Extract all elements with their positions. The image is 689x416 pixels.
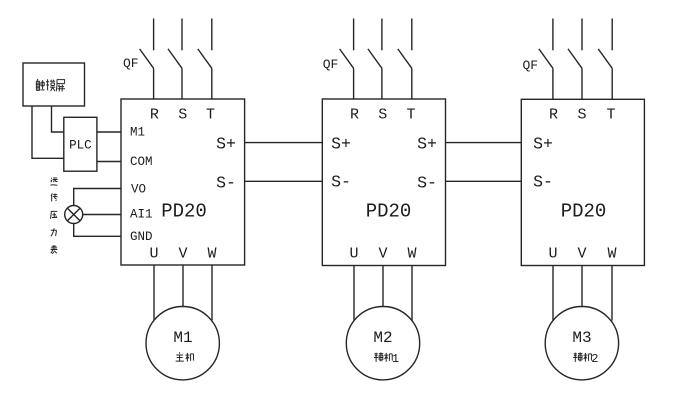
- wire S- link U1 to U2: [245, 180, 323, 182]
- label 远传压力表 (vertical): [51, 178, 58, 254]
- svg-text:M1: M1: [130, 126, 145, 140]
- svg-text:PD20: PD20: [161, 201, 207, 223]
- label 主机: [176, 352, 195, 361]
- svg-text:2: 2: [591, 352, 598, 366]
- motor M2: [346, 307, 419, 380]
- motor M3: [545, 307, 618, 380]
- motor M1: [146, 307, 219, 380]
- svg-text:S-: S-: [417, 174, 437, 193]
- wire U phase U2 to motor M2: [353, 266, 355, 321]
- inverter U1 PD20: [121, 99, 245, 265]
- svg-text:U: U: [149, 246, 158, 263]
- svg-text:T: T: [406, 107, 415, 124]
- svg-text:S-: S-: [533, 173, 553, 192]
- breaker QF2 pole T: [398, 19, 412, 100]
- wire S- link U2 to U3: [446, 180, 522, 182]
- wire W phase U2 to motor M2: [411, 266, 413, 321]
- svg-text:R: R: [549, 107, 558, 124]
- wire U phase U1 to motor M1: [153, 265, 155, 320]
- svg-text:W: W: [607, 246, 616, 263]
- wire U phase U3 to motor M3: [552, 266, 554, 321]
- wire touchscreen right lead to PLC: [52, 106, 64, 132]
- svg-text:COM: COM: [130, 155, 153, 169]
- label 触摸屏: [36, 79, 65, 91]
- svg-text:S+: S+: [331, 135, 351, 154]
- wire V phase U3 to motor M3: [581, 266, 583, 307]
- svg-text:T: T: [606, 107, 615, 124]
- breaker QF1 pole R: [140, 19, 154, 100]
- svg-text:W: W: [207, 246, 216, 263]
- wire W phase U3 to motor M3: [611, 266, 613, 321]
- wire S+ link U1 to U2: [245, 142, 323, 144]
- breaker QF3 pole R: [539, 19, 553, 100]
- pressure transmitter B1 (circle with X): [65, 206, 83, 224]
- touch screen box (触摸屏): [23, 63, 85, 106]
- svg-text:S+: S+: [417, 135, 437, 154]
- svg-text:R: R: [150, 107, 159, 124]
- svg-text:S+: S+: [216, 135, 236, 154]
- svg-text:PD20: PD20: [561, 201, 607, 223]
- svg-text:VO: VO: [131, 183, 146, 197]
- svg-text:S: S: [577, 107, 586, 124]
- svg-text:QF: QF: [323, 57, 339, 72]
- svg-text:V: V: [378, 246, 387, 263]
- breaker QF2 pole R: [340, 19, 354, 100]
- svg-text:S: S: [378, 107, 387, 124]
- svg-text:S-: S-: [331, 173, 351, 192]
- wire PLC to COM terminal: [97, 161, 121, 163]
- svg-text:T: T: [206, 107, 215, 124]
- svg-text:AI1: AI1: [130, 208, 153, 222]
- breaker QF1 pole T: [198, 19, 212, 100]
- svg-text:PD20: PD20: [366, 201, 412, 223]
- svg-text:QF: QF: [123, 56, 139, 71]
- svg-text:PLC: PLC: [69, 139, 92, 153]
- svg-text:W: W: [407, 246, 416, 263]
- wire V phase U1 to motor M1: [182, 265, 184, 307]
- wire V phase U2 to motor M2: [382, 266, 384, 307]
- svg-text:1: 1: [392, 352, 399, 366]
- svg-text:S-: S-: [216, 174, 236, 193]
- breaker QF2 pole S: [368, 19, 382, 100]
- PLC U2: [64, 117, 97, 171]
- svg-text:M2: M2: [373, 329, 392, 347]
- breaker QF3 pole T: [598, 19, 612, 100]
- wire transmitter right to AI1 terminal: [83, 214, 121, 216]
- wire PLC to M1 terminal: [97, 131, 121, 133]
- label 辅机2: [573, 352, 598, 366]
- svg-text:S+: S+: [533, 135, 553, 154]
- inverter U2 PD20: [322, 99, 445, 266]
- wire W phase U1 to motor M1: [211, 265, 213, 320]
- svg-text:V: V: [577, 246, 586, 263]
- label 辅机1: [374, 352, 399, 366]
- svg-text:R: R: [350, 107, 359, 124]
- breaker QF3 pole S: [568, 19, 582, 100]
- breaker QF1 pole S: [168, 19, 182, 100]
- wire S+ link U2 to U3: [446, 142, 522, 144]
- wire transmitter top to VO terminal: [74, 189, 121, 206]
- svg-text:V: V: [178, 246, 187, 263]
- wire transmitter bottom to GND terminal: [74, 224, 121, 237]
- svg-text:U: U: [548, 246, 557, 263]
- inverter U3 PD20: [521, 99, 644, 265]
- svg-text:M1: M1: [173, 329, 192, 347]
- svg-text:S: S: [178, 107, 187, 124]
- svg-text:GND: GND: [130, 230, 153, 244]
- wire touchscreen left lead to PLC: [32, 106, 64, 158]
- svg-text:M3: M3: [572, 329, 591, 347]
- svg-text:U: U: [349, 246, 358, 263]
- svg-text:QF: QF: [523, 58, 539, 73]
